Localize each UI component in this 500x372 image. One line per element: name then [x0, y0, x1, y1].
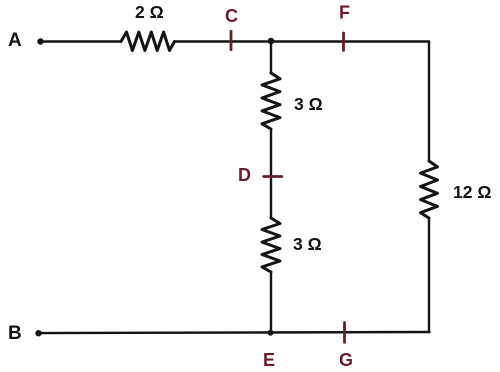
wire top junction to resistor 3ohm upper [270, 42, 272, 74]
tick D [264, 175, 282, 178]
wire right side upper [428, 42, 430, 162]
svg-text:G: G [339, 350, 353, 370]
terminal dot node A [37, 38, 43, 44]
svg-text:B: B [8, 323, 22, 344]
wire right side lower [428, 218, 430, 332]
resistor 3ohm upper (middle branch) [262, 73, 280, 129]
wire bottom B to bottom-right corner (through node E and tick G) [39, 332, 430, 333]
wire between 3ohm resistors (through tick D) [270, 129, 272, 218]
tick C [230, 31, 233, 49]
junction dot node E [268, 330, 274, 336]
svg-text:F: F [339, 3, 350, 23]
svg-text:D: D [238, 165, 251, 185]
svg-text:E: E [263, 350, 275, 370]
resistor 3ohm lower (middle branch) [262, 218, 280, 272]
terminal dot node B [35, 330, 41, 336]
junction dot top node [268, 38, 275, 45]
svg-text:3 Ω: 3 Ω [293, 234, 322, 254]
svg-text:12 Ω: 12 Ω [453, 182, 491, 202]
svg-text:C: C [225, 6, 238, 26]
svg-text:3 Ω: 3 Ω [294, 94, 323, 114]
svg-text:2 Ω: 2 Ω [135, 2, 164, 22]
tick F [342, 33, 345, 50]
resistor 12ohm (right branch) [421, 161, 438, 218]
wire resistor 3ohm lower to node E [270, 272, 272, 333]
wire resistor 2ohm to top-right corner (through ticks C and F) [175, 40, 430, 42]
tick G [343, 323, 346, 343]
svg-text:A: A [8, 30, 22, 51]
resistor 2ohm (top branch) [121, 32, 175, 51]
wire A to resistor 2ohm [41, 40, 122, 42]
